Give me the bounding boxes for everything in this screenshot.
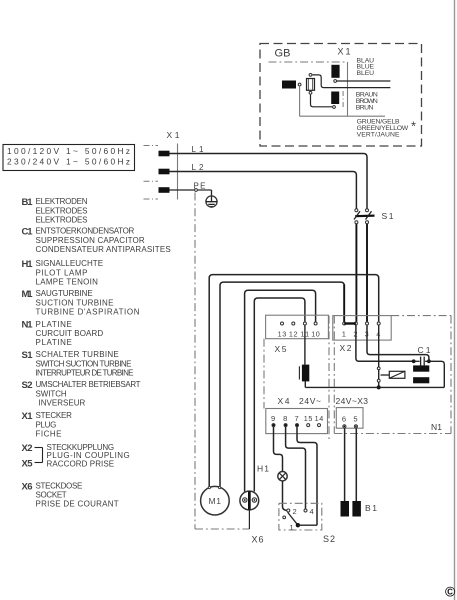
svg-text:10: 10 [311, 329, 320, 338]
svg-text:PLATINE: PLATINE [36, 338, 72, 347]
svg-text:ENTSTOERKONDENSATOR: ENTSTOERKONDENSATOR [36, 227, 135, 236]
svg-text:X1: X1 [22, 411, 34, 422]
svg-text:VERT/JAUNE: VERT/JAUNE [357, 132, 400, 139]
svg-text:C1: C1 [22, 227, 34, 238]
svg-text:SWITCH SUCTION TURBINE: SWITCH SUCTION TURBINE [36, 359, 132, 368]
svg-text:S1: S1 [22, 350, 34, 361]
svg-text:S2: S2 [323, 534, 335, 544]
svg-text:24V~: 24V~ [299, 396, 321, 406]
svg-text:5: 5 [353, 414, 357, 423]
svg-text:N1: N1 [22, 320, 34, 331]
svg-text:STECKDOSE: STECKDOSE [36, 482, 83, 491]
svg-text:GB: GB [275, 48, 291, 60]
svg-text:6: 6 [342, 414, 346, 423]
svg-text:1: 1 [342, 329, 346, 338]
svg-text:SIGNALLEUCHTE: SIGNALLEUCHTE [36, 259, 104, 268]
svg-text:S2: S2 [22, 380, 33, 391]
svg-text:ELEKTRODES: ELEKTRODES [36, 215, 88, 224]
svg-text:24V~X3: 24V~X3 [336, 396, 369, 406]
svg-text:PLUG: PLUG [36, 420, 57, 429]
svg-text:©: © [445, 584, 456, 600]
svg-text:12: 12 [289, 329, 298, 338]
svg-text:STECKER: STECKER [36, 411, 73, 420]
svg-text:BLEU: BLEU [357, 70, 375, 77]
svg-text:BRUN: BRUN [356, 104, 374, 111]
svg-text:SOCKET: SOCKET [36, 491, 67, 500]
svg-text:H1: H1 [22, 259, 34, 270]
svg-text:8: 8 [283, 414, 287, 423]
svg-text:INVERSEUR: INVERSEUR [39, 398, 86, 407]
svg-text:INTERRUPTEUR DE TURBINE: INTERRUPTEUR DE TURBINE [36, 368, 134, 377]
svg-text:X6: X6 [252, 535, 264, 545]
svg-text:CURCUIT BOARD: CURCUIT BOARD [36, 329, 104, 338]
svg-text:ELEKTRODES: ELEKTRODES [36, 206, 88, 215]
svg-text:230/240V 1~ 50/60Hz: 230/240V 1~ 50/60Hz [7, 157, 130, 167]
svg-text:SAUGTURBINE: SAUGTURBINE [36, 289, 93, 298]
svg-text:13: 13 [278, 329, 287, 338]
svg-text:15: 15 [304, 414, 313, 423]
svg-text:PRISE DE COURANT: PRISE DE COURANT [36, 500, 119, 509]
svg-text:UMSCHALTER BETRIEBSART: UMSCHALTER BETRIEBSART [36, 380, 141, 389]
svg-text:X5: X5 [22, 459, 34, 470]
svg-text:FICHE: FICHE [36, 429, 62, 438]
svg-text:ELEKTRODEN: ELEKTRODEN [36, 197, 88, 206]
svg-text:X6: X6 [22, 481, 33, 492]
svg-text:SCHALTER TURBINE: SCHALTER TURBINE [36, 350, 119, 359]
svg-text:B1: B1 [22, 197, 34, 208]
svg-text:M1: M1 [209, 496, 222, 506]
svg-text:1: 1 [290, 523, 294, 532]
svg-text:100/120V 1~ 50/60Hz: 100/120V 1~ 50/60Hz [7, 146, 130, 156]
svg-text:SUPPRESSION CAPACITOR: SUPPRESSION CAPACITOR [36, 236, 145, 245]
svg-text:M1: M1 [22, 289, 34, 300]
svg-text:9: 9 [271, 414, 275, 423]
svg-text:14: 14 [315, 414, 324, 423]
svg-text:CONDENSATEUR ANTIPARASITES: CONDENSATEUR ANTIPARASITES [36, 245, 171, 254]
svg-text:SWITCH: SWITCH [36, 389, 67, 398]
svg-text:N1: N1 [431, 422, 442, 432]
svg-text:H1: H1 [257, 464, 269, 474]
svg-text:*: * [411, 119, 416, 134]
svg-text:X2: X2 [22, 443, 33, 454]
svg-text:PILOT LAMP: PILOT LAMP [36, 268, 88, 277]
svg-text:7: 7 [295, 414, 299, 423]
svg-text:RACCORD PRISE: RACCORD PRISE [47, 459, 115, 468]
svg-text:LAMPE TENOIN: LAMPE TENOIN [36, 277, 99, 286]
svg-text:4: 4 [310, 507, 314, 516]
svg-text:SUCTION TURBINE: SUCTION TURBINE [36, 298, 114, 307]
svg-text:2: 2 [293, 507, 297, 516]
svg-text:PLATINE: PLATINE [36, 320, 72, 329]
svg-text:TURBINE D'ASPIRATION: TURBINE D'ASPIRATION [36, 307, 140, 316]
